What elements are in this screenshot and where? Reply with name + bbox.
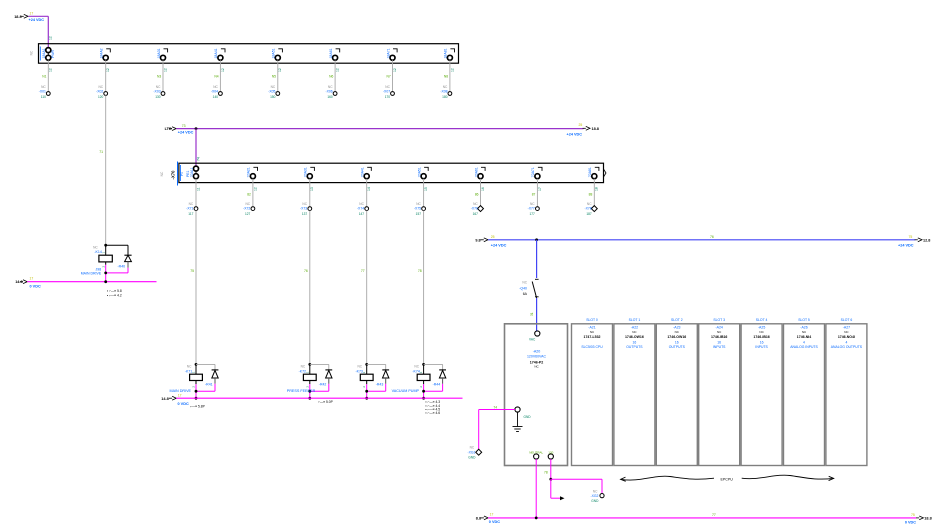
- svg-text:▪ ⌐—≡ 4.2: ▪ ⌐—≡ 4.2: [107, 294, 122, 298]
- svg-text:-X70: -X70: [171, 170, 176, 180]
- load name label MAIN DRIVE: [170, 389, 192, 393]
- flyback diode R40: [106, 245, 132, 268]
- svg-text:75: 75: [190, 269, 194, 273]
- terminal X70:8: [588, 167, 599, 179]
- svg-text:GND: GND: [524, 415, 532, 419]
- svg-text:70A21: 70A21: [247, 167, 251, 177]
- PLC module -A25 SLOT 4: [741, 318, 782, 465]
- svg-text:-X75: -X75: [414, 207, 421, 211]
- off-page source 9.8 +24VDC: [475, 235, 506, 247]
- svg-text:160: 160: [327, 95, 333, 99]
- wire relay K71 to 0VDC bus (magenta): [195, 384, 215, 400]
- svg-text:VACUUM PUMP: VACUUM PUMP: [392, 389, 420, 393]
- svg-text:1747-L532: 1747-L532: [584, 335, 601, 339]
- svg-text:0 VDC: 0 VDC: [30, 284, 41, 288]
- svg-text:-R44: -R44: [433, 383, 441, 387]
- svg-text:147: 147: [359, 212, 365, 216]
- svg-text:17: 17: [30, 277, 34, 281]
- connector pin -X72: [243, 202, 255, 216]
- svg-text:70A31: 70A31: [304, 167, 308, 177]
- PLC NEUTRAL pin: [529, 450, 543, 459]
- wire X1:2 pin down to relay K14: [99, 95, 105, 245]
- wire from terminal X1:5 to plug pin: [272, 60, 282, 93]
- svg-text:11: 11: [196, 187, 200, 191]
- flyback diode R43: [367, 364, 389, 386]
- svg-text:NC: NC: [357, 365, 362, 369]
- stub wire with arrow: [551, 479, 565, 500]
- svg-text:77: 77: [361, 269, 365, 273]
- svg-text:170: 170: [385, 95, 391, 99]
- svg-text:86: 86: [475, 193, 479, 197]
- contact cross-references K74: [425, 400, 440, 415]
- svg-text:SLOT 5: SLOT 5: [798, 318, 810, 322]
- connector pin -XG GND (diamond): [467, 445, 481, 459]
- terminal X1:7: [386, 48, 397, 60]
- svg-text:18.8: 18.8: [924, 517, 931, 521]
- wire from terminal X70:4 to plug pin: [367, 179, 371, 209]
- svg-text:-XG1: -XG1: [467, 450, 475, 454]
- svg-text:NC: NC: [530, 202, 535, 206]
- svg-text:LTD: LTD: [165, 127, 172, 131]
- svg-text:N8: N8: [444, 74, 448, 78]
- svg-text:NC: NC: [41, 85, 46, 89]
- svg-text:VAC: VAC: [529, 337, 536, 341]
- svg-text:ANALOG OUTPUTS: ANALOG OUTPUTS: [831, 345, 863, 349]
- svg-text:-X71: -X71: [186, 207, 193, 211]
- svg-text:NC: NC: [156, 85, 161, 89]
- svg-text:N1: N1: [42, 74, 46, 78]
- svg-text:0 VDC: 0 VDC: [178, 402, 189, 406]
- connector pin -X73: [300, 202, 312, 216]
- svg-text:76: 76: [304, 269, 308, 273]
- svg-text:NC: NC: [587, 202, 592, 206]
- svg-text:16: 16: [633, 340, 637, 344]
- svg-text:SLOT 4: SLOT 4: [756, 318, 768, 322]
- svg-text:18A71: 18A71: [386, 48, 390, 58]
- svg-text:8.8: 8.8: [476, 516, 481, 520]
- svg-text:117: 117: [188, 212, 193, 216]
- svg-text:NC: NC: [473, 202, 478, 206]
- wire W73 +24VDC (purple) to 18.8: [176, 123, 599, 167]
- svg-text:PRESS FEEDER: PRESS FEEDER: [287, 389, 316, 393]
- load name label PRESS FEEDER: [287, 389, 316, 393]
- terminal X1:3: [157, 48, 168, 60]
- relay coil K72: [299, 363, 317, 388]
- svg-text:N5: N5: [272, 74, 276, 78]
- load name label VACUUM PUMP: [392, 389, 420, 393]
- PLC power supply A20: [505, 324, 568, 466]
- svg-text:12: 12: [163, 68, 167, 72]
- off-page dest 12.8 +24VDC (right): [898, 235, 930, 247]
- PLC module -A22 SLOT 1: [614, 318, 655, 465]
- 0VDC bottom bus wire W77 (magenta): [476, 512, 916, 524]
- connector pin -X08: [440, 85, 451, 99]
- wire X70:4 pin down to relay K73: [361, 211, 367, 365]
- wire breaker to PLC PSU (blue): [536, 298, 538, 331]
- wire from terminal X1:4 to plug pin: [214, 60, 224, 93]
- svg-text:4: 4: [803, 340, 805, 344]
- terminal X70:6: [474, 167, 485, 179]
- connector pin -X06: [326, 85, 337, 99]
- svg-text:12: 12: [253, 187, 257, 191]
- connector pin -X01: [39, 85, 50, 99]
- svg-text:17: 17: [30, 12, 34, 16]
- svg-text:SLOT 2: SLOT 2: [671, 318, 683, 322]
- svg-text:140: 140: [213, 95, 219, 99]
- svg-text:-X73: -X73: [300, 207, 307, 211]
- svg-text:17: 17: [178, 394, 182, 398]
- svg-text:82: 82: [247, 193, 251, 197]
- wire W17 +24VDC feed to strip X1 (purple): [29, 16, 53, 48]
- svg-text:MAIN DRIVE: MAIN DRIVE: [81, 272, 102, 276]
- svg-text:-X77: -X77: [528, 207, 535, 211]
- PLC chassis ground pin: [513, 407, 532, 432]
- svg-text:-R40: -R40: [118, 265, 126, 269]
- connector pin -X76: [471, 202, 484, 216]
- svg-text:77: 77: [712, 513, 716, 517]
- svg-text:+24 VDC: +24 VDC: [491, 243, 507, 247]
- wire from terminal X1:6 to plug pin: [329, 60, 339, 93]
- 0VDC bus wire (middle, from 14.8): [161, 394, 462, 406]
- svg-text:18: 18: [595, 187, 599, 191]
- wire X70:5 pin down to relay K74: [418, 211, 424, 365]
- connector pin -X03: [153, 85, 164, 99]
- svg-text:NC: NC: [470, 445, 475, 449]
- svg-text:-X05: -X05: [268, 90, 275, 94]
- svg-text:12: 12: [278, 68, 282, 72]
- svg-text:-X78: -X78: [585, 207, 592, 211]
- svg-text:75: 75: [909, 235, 913, 239]
- svg-text:PWR: PWR: [51, 50, 55, 58]
- wire from terminal X70:3 to plug pin: [310, 179, 314, 209]
- wire from terminal X70:5 to plug pin: [424, 179, 428, 209]
- contact cross-references K14: [107, 289, 122, 298]
- svg-text:88: 88: [589, 193, 593, 197]
- svg-text:17: 17: [538, 187, 542, 191]
- svg-text:25: 25: [491, 235, 495, 239]
- terminal X1:6: [329, 48, 340, 60]
- connector pin -X74: [357, 202, 369, 216]
- svg-text:120: 120: [98, 95, 104, 99]
- svg-text:SLOT 0: SLOT 0: [586, 318, 598, 322]
- terminal X1:8: [444, 48, 455, 60]
- svg-text:70A61: 70A61: [474, 167, 478, 177]
- svg-text:87: 87: [532, 193, 536, 197]
- svg-text:N4: N4: [214, 74, 218, 78]
- terminal strip X1 (top): [30, 44, 459, 64]
- terminal X70:1: [180, 166, 199, 179]
- svg-text:110: 110: [41, 95, 46, 99]
- svg-text:9.8: 9.8: [475, 238, 480, 242]
- svg-text:75: 75: [911, 513, 915, 517]
- svg-text:▪ ⌐—≡ 4.6: ▪ ⌐—≡ 4.6: [425, 411, 440, 415]
- svg-text:NC: NC: [302, 202, 307, 206]
- terminal X70:7: [531, 167, 542, 179]
- connector pin -X75: [414, 202, 426, 216]
- svg-text:J98: J98: [96, 267, 102, 271]
- svg-text:18A31: 18A31: [157, 48, 161, 58]
- svg-text:137: 137: [302, 212, 308, 216]
- svg-text:16: 16: [481, 187, 485, 191]
- svg-text:150: 150: [270, 95, 276, 99]
- svg-text:1746-OW16: 1746-OW16: [667, 335, 686, 339]
- svg-text:4: 4: [845, 340, 847, 344]
- connector pin -X05: [268, 85, 279, 99]
- svg-text:NC: NC: [213, 85, 218, 89]
- svg-text:-A20: -A20: [533, 349, 541, 353]
- svg-text:NC: NC: [414, 365, 419, 369]
- svg-text:15: 15: [424, 187, 428, 191]
- svg-text:GND: GND: [468, 456, 476, 460]
- circuit breaker Q40 6A: [519, 279, 538, 298]
- PLC module -A26 SLOT 5: [784, 318, 825, 465]
- +24VDC bus wire W76 (blue): [488, 235, 915, 241]
- PLC module -A23 SLOT 2: [656, 318, 697, 465]
- svg-text:N6: N6: [329, 74, 333, 78]
- connector pin -X02: [96, 85, 107, 99]
- wire X70:1 pin down to relay K71: [190, 211, 196, 365]
- svg-text:70A51: 70A51: [417, 167, 421, 177]
- svg-text:180: 180: [442, 95, 448, 99]
- svg-text:14.8: 14.8: [161, 397, 168, 401]
- svg-text:N3: N3: [157, 74, 161, 78]
- svg-text:17: 17: [490, 512, 494, 516]
- svg-text:12.8: 12.8: [923, 238, 930, 242]
- wire bus to breaker (blue): [536, 240, 538, 278]
- svg-text:-X74: -X74: [357, 207, 364, 211]
- relay coil K14 with node: [81, 244, 113, 276]
- connector pin -XG2 GND: [590, 489, 604, 503]
- svg-text:NC: NC: [301, 365, 306, 369]
- svg-text:+24 VDC: +24 VDC: [29, 18, 45, 22]
- PLC module -A24 SLOT 3: [699, 318, 740, 465]
- svg-text:18.8: 18.8: [14, 15, 21, 19]
- svg-text:78: 78: [418, 269, 422, 273]
- wire from terminal X70:7 to plug pin: [532, 179, 542, 209]
- svg-text:6A: 6A: [523, 292, 528, 296]
- wire relay K14 to 0VDC bus (magenta): [104, 265, 128, 282]
- svg-text:74: 74: [197, 157, 201, 161]
- svg-text:-X07: -X07: [383, 90, 390, 94]
- svg-text:0 VDC: 0 VDC: [905, 520, 916, 524]
- svg-text:18A41: 18A41: [214, 48, 218, 58]
- svg-text:-X03: -X03: [153, 90, 160, 94]
- svg-text:-X08: -X08: [440, 90, 447, 94]
- svg-text:12: 12: [393, 68, 397, 72]
- connector pin -X04: [211, 85, 222, 99]
- wire NEUTRAL to 0VDC bus (magenta): [535, 459, 537, 518]
- svg-text:⌐—≡ 5.8P: ⌐—≡ 5.8P: [190, 404, 206, 408]
- svg-text:18A61: 18A61: [329, 48, 333, 58]
- svg-text:-R43: -R43: [376, 383, 384, 387]
- svg-text:25: 25: [579, 123, 583, 127]
- svg-text:12: 12: [221, 68, 225, 72]
- svg-text:NC: NC: [189, 202, 194, 206]
- svg-text:-X06: -X06: [326, 90, 333, 94]
- off-page source LTD +24VDC: [165, 124, 194, 135]
- wire from terminal X1:2 to plug pin: [106, 60, 110, 93]
- svg-text:184A1: 184A1: [42, 48, 46, 58]
- wire from terminal X70:1 to plug pin: [196, 179, 200, 209]
- connector pin -X77: [528, 202, 540, 216]
- svg-text:12: 12: [336, 68, 340, 72]
- svg-text:OUTPUTS: OUTPUTS: [669, 345, 686, 349]
- svg-text:73: 73: [182, 124, 186, 128]
- svg-text:P0: P0: [180, 172, 184, 176]
- PLC module -A27 SLOT 6: [826, 318, 867, 465]
- svg-text:-X72: -X72: [243, 207, 250, 211]
- off-page source 18.8 +24VDC (top-left): [14, 12, 44, 22]
- wire from terminal X70:8 to plug pin: [589, 179, 599, 209]
- svg-text:NC: NC: [359, 202, 364, 206]
- svg-text:NC: NC: [328, 85, 333, 89]
- wire from terminal X70:6 to plug pin: [475, 179, 485, 209]
- svg-text:1746-OW16: 1746-OW16: [625, 335, 644, 339]
- svg-text:MAIN DRIVE: MAIN DRIVE: [170, 389, 192, 393]
- svg-text:-X76: -X76: [471, 207, 478, 211]
- wire relay K72 to 0VDC bus (magenta): [308, 384, 328, 400]
- svg-text:18A81: 18A81: [444, 48, 448, 58]
- svg-text:76: 76: [710, 235, 714, 239]
- svg-text:14: 14: [367, 187, 371, 191]
- svg-text:SLC5/03 CPU: SLC5/03 CPU: [581, 345, 603, 349]
- terminal X70:3: [304, 167, 315, 179]
- relay coil K74: [412, 363, 430, 388]
- svg-text:1746-IB16: 1746-IB16: [753, 335, 769, 339]
- svg-text:127: 127: [245, 212, 251, 216]
- svg-text:GND: GND: [591, 499, 599, 503]
- svg-text:12: 12: [450, 68, 454, 72]
- svg-text:12: 12: [49, 68, 53, 72]
- svg-text:-X04: -X04: [211, 90, 218, 94]
- svg-text:EPCPU: EPCPU: [721, 477, 734, 481]
- PLC module -A21 SLOT 0: [572, 318, 613, 465]
- svg-text:NC: NC: [30, 50, 34, 55]
- terminal X1:2: [100, 48, 111, 60]
- svg-text:-XG2: -XG2: [590, 494, 598, 498]
- svg-text:OUTPUTS: OUTPUTS: [626, 345, 643, 349]
- terminal X1:1: [42, 48, 55, 61]
- svg-text:⌐—≡ 5.0P: ⌐—≡ 5.0P: [318, 400, 334, 404]
- svg-text:SLOT 6: SLOT 6: [841, 318, 853, 322]
- svg-text:70A71: 70A71: [531, 167, 535, 177]
- svg-text:NC: NC: [187, 365, 192, 369]
- svg-text:12: 12: [49, 36, 53, 40]
- wire relay K73 to 0VDC bus (magenta): [365, 384, 385, 400]
- terminal X70:4: [361, 167, 372, 179]
- svg-text:16: 16: [760, 340, 764, 344]
- connector pin -X07: [383, 85, 394, 99]
- svg-text:-X02: -X02: [96, 90, 103, 94]
- terminal X70:2: [247, 167, 258, 179]
- svg-text:31: 31: [530, 312, 534, 316]
- relay coil K73: [355, 363, 373, 388]
- svg-text:NC: NC: [245, 202, 250, 206]
- flyback diode R44: [424, 364, 446, 386]
- svg-text:120V60VAC: 120V60VAC: [527, 354, 546, 358]
- svg-text:INPUTS: INPUTS: [755, 345, 768, 349]
- svg-text:+24 VDC: +24 VDC: [178, 131, 194, 135]
- svg-text:-R41: -R41: [205, 383, 213, 387]
- svg-text:N7: N7: [386, 74, 390, 78]
- relay coil K71: [185, 363, 203, 388]
- svg-text:177: 177: [529, 212, 535, 216]
- 0VDC bus wire (left, from 14.8): [15, 277, 156, 289]
- svg-text:INPUTS: INPUTS: [713, 345, 726, 349]
- svg-text:157: 157: [416, 212, 422, 216]
- svg-text:1746-NI4: 1746-NI4: [797, 335, 811, 339]
- svg-text:78: 78: [544, 471, 548, 475]
- svg-text:NC: NC: [443, 85, 448, 89]
- terminal X70:5: [417, 167, 428, 179]
- svg-text:NC: NC: [522, 281, 527, 285]
- wire from terminal X1:8 to plug pin: [444, 60, 454, 93]
- svg-text:-R42: -R42: [319, 383, 327, 387]
- wire X70:3 pin down to relay K72: [304, 211, 310, 365]
- svg-text:NC: NC: [385, 85, 390, 89]
- svg-text:16: 16: [675, 340, 679, 344]
- wire 120 pin to GND pin (magenta): [544, 459, 602, 493]
- svg-text:18.8: 18.8: [592, 127, 599, 131]
- connector pin -X78: [585, 202, 598, 216]
- svg-text:13: 13: [310, 187, 314, 191]
- EPCPU group brace: [621, 475, 834, 481]
- terminal X1:4: [214, 48, 225, 60]
- svg-text:16: 16: [717, 340, 721, 344]
- svg-text:184A2: 184A2: [100, 48, 104, 58]
- terminal strip X70: [160, 162, 606, 186]
- wire from terminal X1:1 to plug pin: [42, 60, 52, 93]
- svg-text:74: 74: [493, 405, 497, 409]
- svg-text:130: 130: [155, 95, 161, 99]
- svg-text:▪ ⌐—≡ 5.8: ▪ ⌐—≡ 5.8: [107, 289, 122, 293]
- svg-text:71: 71: [99, 150, 103, 154]
- wire relay K74 to 0VDC bus (magenta): [422, 384, 442, 400]
- wire from terminal X1:3 to plug pin: [157, 60, 167, 93]
- svg-text:+24 VDC: +24 VDC: [898, 243, 914, 247]
- svg-text:12: 12: [106, 68, 110, 72]
- svg-text:-Q40: -Q40: [519, 286, 527, 290]
- svg-text:187: 187: [586, 212, 592, 216]
- svg-text:1746-NO4I: 1746-NO4I: [838, 335, 855, 339]
- svg-text:NC: NC: [416, 202, 421, 206]
- wire from terminal X1:7 to plug pin: [386, 60, 396, 93]
- flyback diode R41: [196, 364, 218, 386]
- svg-text:0 VDC: 0 VDC: [489, 520, 500, 524]
- svg-text:167: 167: [473, 212, 479, 216]
- wire from terminal X70:2 to plug pin: [247, 179, 257, 209]
- terminal X1:5: [272, 48, 283, 60]
- svg-text:1746-IB16: 1746-IB16: [711, 335, 727, 339]
- off-page dest 10.8 0VDC (bottom right): [905, 513, 932, 524]
- svg-text:70A41: 70A41: [361, 167, 365, 177]
- svg-text:NC: NC: [93, 246, 98, 250]
- svg-text:-X01: -X01: [39, 90, 46, 94]
- svg-text:70A81: 70A81: [588, 167, 592, 177]
- svg-text:NC: NC: [98, 85, 103, 89]
- wire PLC ground to -XG pin (magenta): [479, 405, 515, 450]
- svg-text:ANALOG INPUTS: ANALOG INPUTS: [790, 345, 818, 349]
- connector pin -X71: [186, 202, 198, 216]
- svg-text:70A11: 70A11: [190, 167, 194, 177]
- svg-text:+24 VDC: +24 VDC: [566, 132, 582, 136]
- svg-text:SLOT 1: SLOT 1: [629, 318, 641, 322]
- PLC 120 pin: [548, 450, 553, 459]
- svg-text:NC: NC: [271, 85, 276, 89]
- flyback diode R42: [310, 364, 332, 386]
- svg-text:18A51: 18A51: [272, 48, 276, 58]
- svg-text:NC: NC: [593, 489, 598, 493]
